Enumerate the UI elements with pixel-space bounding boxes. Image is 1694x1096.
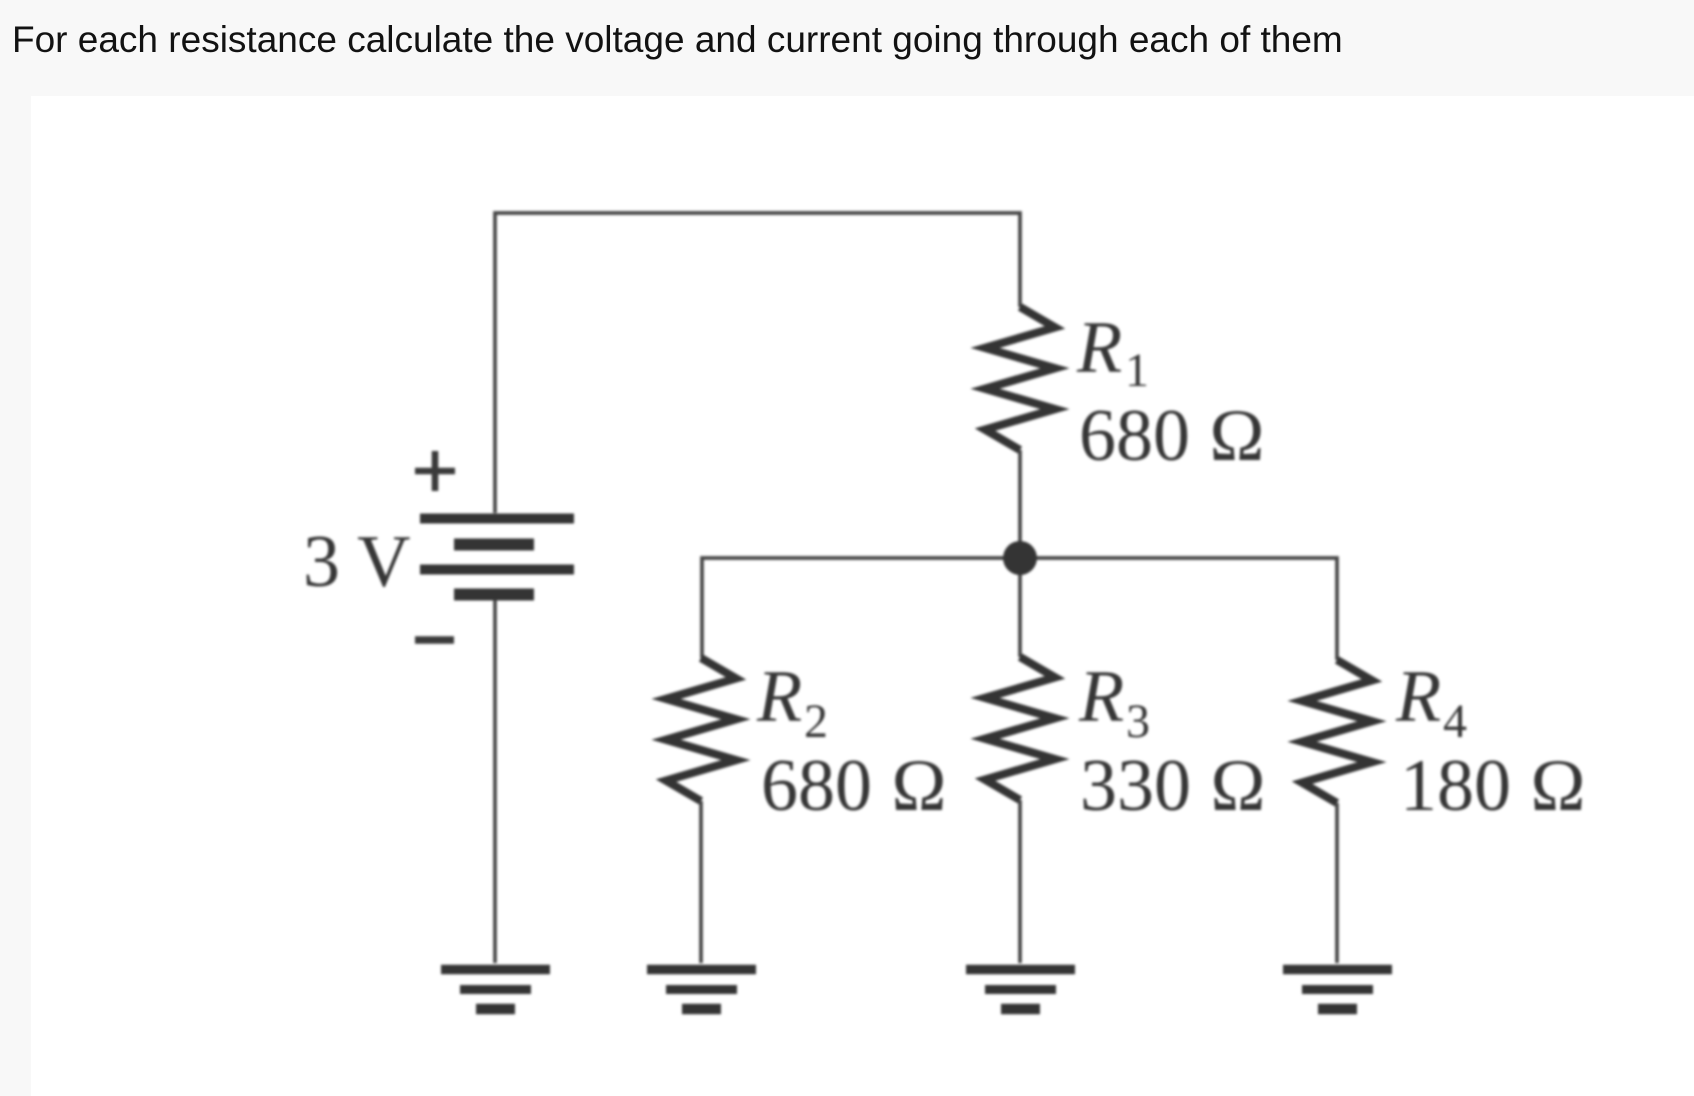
node A junction dot [1003,541,1037,575]
wire: R3 to ground [1018,800,1022,963]
wire: node to R3 [1018,558,1022,657]
svg-text:R: R [1395,656,1441,738]
resistor R4 [1302,660,1372,803]
resistor R3 [985,657,1055,800]
battery V1 plates [420,519,574,595]
ground (battery) [441,970,550,1010]
battery + sign [415,451,455,491]
wire: R1 bottom to node [1018,450,1022,558]
svg-text:3 V: 3 V [303,521,411,603]
svg-text:180 Ω: 180 Ω [1400,745,1586,827]
wire: R4 to ground [1335,803,1339,963]
svg-text:R: R [756,656,802,738]
ground (R4) [1283,970,1392,1010]
wire: middle bus from R2 to R4 [702,558,1337,660]
svg-text:R: R [1076,307,1122,389]
ground (R2) [647,970,756,1010]
wire: top loop from battery + to R1 [495,213,1020,513]
resistor R2 [666,658,736,801]
wire: battery - to ground [493,600,497,963]
question text [12,19,1343,61]
svg-text:2: 2 [804,695,828,748]
svg-text:680 Ω: 680 Ω [761,745,947,827]
wire: R2 to ground [699,801,703,963]
svg-text:3: 3 [1126,695,1150,748]
svg-text:1: 1 [1125,344,1149,397]
resistor R1 [985,307,1055,450]
battery - sign [415,636,454,644]
svg-text:680 Ω: 680 Ω [1079,395,1265,477]
ground (R3) [966,970,1075,1010]
svg-text:4: 4 [1443,695,1467,748]
svg-text:330 Ω: 330 Ω [1080,745,1266,827]
svg-text:R: R [1078,656,1124,738]
